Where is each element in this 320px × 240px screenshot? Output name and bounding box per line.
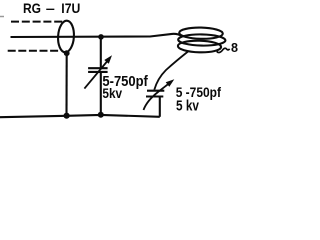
svg-text:RG: RG	[23, 0, 41, 16]
svg-text:5kv: 5kv	[102, 86, 122, 102]
svg-text:8: 8	[231, 40, 238, 55]
svg-text:5 kv: 5 kv	[176, 98, 199, 114]
svg-text:I7U: I7U	[61, 0, 80, 16]
svg-text:–: –	[46, 0, 55, 16]
